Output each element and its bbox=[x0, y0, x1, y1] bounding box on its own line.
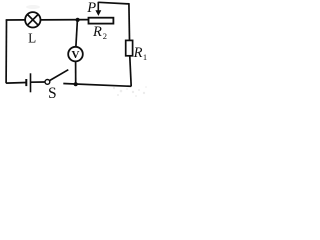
wire R1 down to bottom-right corner bbox=[130, 57, 131, 87]
wire left vertical bbox=[5, 20, 7, 84]
wire right vertical down to R1 bbox=[128, 3, 131, 40]
svg-text:P: P bbox=[86, 0, 96, 16]
svg-text:2: 2 bbox=[103, 31, 107, 41]
wire bottom-left corner to battery bbox=[6, 82, 26, 85]
wire switch to bottom-right corner bbox=[63, 84, 131, 87]
svg-text:R: R bbox=[92, 24, 102, 40]
wire lamp to potentiometer bbox=[41, 19, 89, 21]
wire wiper to top-right bbox=[98, 2, 129, 4]
svg-text:R: R bbox=[133, 45, 143, 61]
wire battery to switch bbox=[31, 81, 45, 83]
wire voltmeter down to bottom rail bbox=[75, 62, 77, 84]
battery cell bbox=[26, 73, 30, 92]
resistor R1 bbox=[126, 40, 133, 55]
svg-text:V: V bbox=[72, 49, 80, 61]
wire junction down to voltmeter bbox=[76, 20, 78, 46]
voltmeter U V bbox=[68, 47, 83, 62]
svg-text:S: S bbox=[48, 85, 57, 102]
switch S bbox=[45, 70, 68, 85]
potentiometer R2 (rheostat body) bbox=[89, 18, 114, 24]
lamp L bbox=[25, 12, 40, 27]
node junction top (dot) bbox=[76, 18, 80, 22]
wiper arrow of R2 bbox=[95, 2, 101, 16]
svg-text:L: L bbox=[28, 31, 36, 46]
scan noise (decorative) bbox=[26, 5, 147, 97]
svg-text:1: 1 bbox=[143, 52, 147, 62]
node junction bottom (dot) bbox=[74, 82, 78, 86]
wire top-left horizontal to lamp bbox=[6, 19, 25, 21]
